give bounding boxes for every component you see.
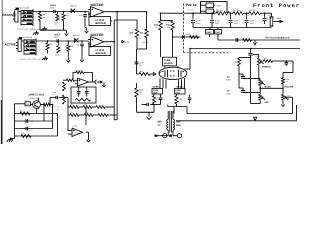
switch box SW1 [25,102,31,106]
wire ts bottom [250,101,252,104]
svg-text:1N4148: 1N4148 [73,34,81,37]
wire bus B lower [187,113,293,115]
regulator U3 +12V [206,3,214,8]
jack J3 output left [167,134,169,136]
wire active signal [36,40,89,42]
svg-text:47k: 47k [65,14,68,17]
junction arrow bus C [254,117,257,120]
wire mid bus x68 [67,98,69,132]
wire passive signal [32,11,89,13]
svg-text:10u: 10u [57,105,60,108]
svg-text:50uF: 50uF [277,17,282,20]
IC box U1 LT1010 [89,17,111,26]
svg-text:47uF: 47uF [267,18,272,21]
wire power ground rail [193,27,272,29]
resistor R20 [20,112,30,115]
wire vertical bus B [113,20,115,120]
wire U1 output [104,11,147,13]
capacitor C20 spare [285,60,287,63]
arrow B+ out [274,21,282,23]
transistor Q1 [33,101,41,109]
wire tube plate out [185,68,191,70]
svg-text:10k 2W: 10k 2W [249,9,256,12]
wire mid feed [243,92,260,94]
svg-text:PWR: PWR [176,89,182,92]
feedback row 2 [68,114,70,116]
feedback loop U5 [73,73,76,80]
svg-text:1%: 1% [139,91,142,94]
capacitor C13 preout [235,38,237,42]
svg-text:47k: 47k [264,57,267,60]
resistor R13 filter [233,12,244,15]
resistor R9 grid stop [139,72,150,75]
op-amp U1 buffer [91,7,105,18]
resistor R14 filter [249,12,261,15]
svg-text:VOLUME: VOLUME [284,86,294,89]
svg-text:100k: 100k [139,89,143,92]
ground G3 arrow [66,30,68,33]
svg-text:ACTIVE: ACTIVE [5,43,16,47]
resistor R3 [63,11,65,13]
resistor R15 preout [243,39,252,42]
capacitor C17 [25,127,27,131]
svg-text:1%: 1% [55,24,58,27]
wire to tube grid [137,73,140,75]
resistor R7 bias [135,29,139,38]
wire treble to volume [286,60,293,62]
wire pre-out [217,34,219,40]
svg-text:4x1N4148: 4x1N4148 [20,7,30,10]
svg-text:BUFFER: BUFFER [96,22,106,25]
op-amp U5 direct [78,78,89,86]
svg-text:250V: 250V [54,36,59,39]
svg-text:100k: 100k [233,61,237,64]
resistor R22 vert1 [63,82,66,91]
ground arrow U6 [88,132,90,136]
svg-text:BOARD: BOARD [164,62,173,65]
capacitor C9 filter [230,12,232,14]
capacitor C10 filter [246,12,248,14]
wire U5 out [89,81,95,83]
capacitor C21 [242,74,244,77]
IC box U2 LT1010 [89,47,111,56]
svg-text:450V: 450V [234,22,239,25]
feedback row 1 [68,106,70,108]
resistor R23 vert2 [63,95,66,104]
svg-text:+22dBu: +22dBu [152,85,161,88]
resistor R11 plate [171,21,174,30]
capacitor C14 [160,94,162,97]
capacitor C5 coupling [135,61,139,63]
wire plate right lead [172,30,174,57]
regulator U4 -12V [206,9,214,14]
svg-text:10k: 10k [21,132,24,135]
resistor R19 [40,104,43,106]
ladder row 3 [15,128,53,130]
svg-text:100n: 100n [186,33,190,36]
wire bass-volume link [260,87,283,89]
ladder row 2 [15,120,53,122]
ladder row 1 [15,113,58,115]
ground G5 arrow [67,51,69,57]
resistor R24 slope [238,58,241,66]
wire heater row [173,36,201,38]
svg-text:604: 604 [58,97,61,100]
wire plate left lead [160,30,162,57]
diode clamp network D6-D9 active [23,39,25,54]
resistor R21 [21,134,31,137]
ground hatch active cluster [45,56,47,58]
wire drop x146.5 [146,12,148,30]
capacitor C8 filter [211,12,213,14]
svg-text:1 2 3 4 5 6 7 8 9: 1 2 3 4 5 6 7 8 9 [161,77,175,80]
capacitor C4 shunt [81,40,83,42]
resistor R17 [176,94,178,96]
svg-text:BAL: BAL [176,124,181,127]
wire U2 output [104,41,114,43]
pot VR3 mid [259,94,262,100]
capacitor C16 [25,119,27,123]
resistor R26 vol upper [282,78,285,84]
pot VR1 treble [258,54,260,57]
svg-text:630V: 630V [227,92,232,95]
terminal box power chassis [215,30,222,35]
capacitor C22 [238,74,240,88]
wire xfmr top box [168,105,187,107]
svg-text:BUFFER: BUFFER [91,3,105,7]
pot VR2 bass [259,80,262,86]
wire bass feed [243,78,260,80]
ground G4 arrow [84,19,86,28]
resistor R2 [57,12,59,15]
svg-text:220k: 220k [55,54,59,57]
svg-text:mute: mute [25,99,29,102]
dashed boundary front panel vertical [183,2,185,53]
svg-text:Pre Out Unbalanced: Pre Out Unbalanced [266,36,290,39]
svg-text:250k: 250k [255,55,259,58]
svg-text:BUFFER: BUFFER [96,52,106,55]
ground arrow bus [148,112,150,116]
svg-text:TUBE: TUBE [164,59,171,62]
svg-text:10k: 10k [20,110,23,113]
terminal box power gnd [206,30,214,35]
wire left bus direct [15,103,23,105]
svg-text:1W: 1W [167,26,170,29]
sub box caps [71,87,96,103]
capacitor C7 filter [192,12,194,14]
svg-text:10u: 10u [57,114,60,117]
svg-text:1%: 1% [42,16,45,19]
svg-text:CT: CT [158,124,162,127]
resistor R8 bias [145,29,149,38]
svg-text:+9V reg: +9V reg [186,8,193,11]
wire vol wiper out [285,96,292,98]
svg-text:+12V: +12V [216,4,222,7]
svg-text:1M: 1M [49,43,52,46]
wire u6 inputs [68,129,70,131]
diode D10 clamp [74,38,78,42]
diode D5 clamp [71,9,75,13]
svg-text:CHS: CHS [215,31,220,34]
svg-text:MID: MID [265,101,269,104]
terminal box out right [175,89,186,95]
wire ts node column [250,55,252,101]
dashed boundary bottom [184,52,232,54]
IC box tube board label [163,57,177,66]
wire power top rail [201,2,228,13]
svg-text:47uF: 47uF [196,20,201,23]
svg-text:1N4148: 1N4148 [70,5,78,8]
ladder row 4 [15,135,58,137]
svg-text:10uF: 10uF [139,61,144,64]
svg-text:+22dBu: +22dBu [176,85,185,88]
capacitor C18 dc block [49,98,51,105]
svg-text:10k: 10k [85,111,88,114]
resistor R25 treble out [263,60,264,62]
capacitor C11 filter [264,12,266,14]
svg-text:~ +0.7V: ~ +0.7V [141,41,149,44]
wire ts top link [239,57,251,59]
jack J2 active input [18,39,21,52]
wire loop y20 [114,20,137,29]
svg-text:servo: servo [73,125,78,128]
wire signal bus to tonestack [190,48,300,50]
wire row1 ground [39,24,41,30]
svg-text:47k: 47k [70,45,73,48]
svg-text:604: 604 [58,84,61,87]
connector out direct [95,80,97,84]
ground hatch G2 [36,31,38,33]
wire ground bus left [137,111,155,113]
resistor R10 plate [159,21,162,30]
svg-text:4x1N4148: 4x1N4148 [23,36,33,39]
resistor R6 [68,40,70,42]
resistor R16 [153,94,155,96]
wire bias join [136,38,138,50]
resistor R1 1M [39,11,41,13]
capacitor C2 shunt [84,11,86,13]
svg-text:450V: 450V [215,22,220,25]
svg-text:PWR: PWR [153,89,159,92]
capacitor C1 series [53,10,55,14]
capacitor C6 heater [182,35,184,39]
capacitor C23 hf [142,104,147,106]
svg-text:2k2 2W: 2k2 2W [233,9,240,12]
wire vertical bus A [116,12,118,120]
capacitor C3 series [56,39,58,43]
wire ladder verticals [52,105,54,129]
vacuum tube V1 12AX7 [159,67,187,79]
wire right edge drop [296,105,298,121]
wire tube leads down [159,78,161,88]
ground hatch bottom left [11,138,15,140]
svg-text:450V: 450V [250,22,255,25]
capacitor C19 ts input [250,49,252,53]
terminal box out left [152,89,163,95]
svg-text:630V: 630V [227,78,232,81]
svg-text:1M: 1M [42,14,45,17]
svg-text:2k2 2W: 2k2 2W [216,9,223,12]
pot VR4 volume [282,94,285,100]
svg-text:47uF: 47uF [250,20,255,23]
svg-text:BUFFER: BUFFER [91,33,105,37]
op-amp U6 servo [72,128,83,137]
jack J4 output right [172,134,174,136]
op-amp U2 buffer [91,37,105,48]
resistor R12 filter [216,12,230,15]
svg-text:10uF: 10uF [52,91,57,94]
svg-text:Pwr 12: Pwr 12 [186,3,197,7]
svg-text:log: log [286,80,288,83]
svg-text:47uF: 47uF [215,20,220,23]
wire q1 collector [38,98,40,101]
border scan line left edge [1,0,3,144]
svg-text:22k: 22k [70,103,73,106]
ground hatch passive cluster [44,27,46,29]
svg-text:~ -0.7V: ~ -0.7V [122,41,130,44]
transformer T1 [169,111,171,133]
svg-text:22k: 22k [84,103,87,106]
svg-text:Front Power: Front Power [253,3,300,9]
wire plate feed [160,13,162,21]
svg-text:22k: 22k [70,111,73,114]
svg-text:SW: SW [26,103,29,106]
resistor R5 [57,41,59,46]
resistor R4 [47,40,49,42]
resistor R18 tail [136,83,138,88]
arrow preout [254,40,256,42]
svg-text:250V: 250V [50,7,55,10]
ground arrow volume [282,100,284,101]
svg-text:DIRECT OUT: DIRECT OUT [29,94,45,97]
wire B+ rail [161,12,194,14]
svg-text:47uF: 47uF [234,20,239,23]
diode clamp network D1-D4 passive [20,10,22,25]
wire bus C bottom [176,120,297,122]
svg-text:GND: GND [206,31,211,34]
svg-text:TREBLE: TREBLE [262,66,271,69]
ground G6 arrow [81,48,83,56]
jack J1 passive input [15,10,18,23]
svg-text:1W: 1W [155,26,158,29]
capacitor C15 [189,95,191,98]
svg-text:450V: 450V [196,22,201,25]
connector arrow to grid [150,73,153,75]
wire B+ chain [193,12,216,14]
